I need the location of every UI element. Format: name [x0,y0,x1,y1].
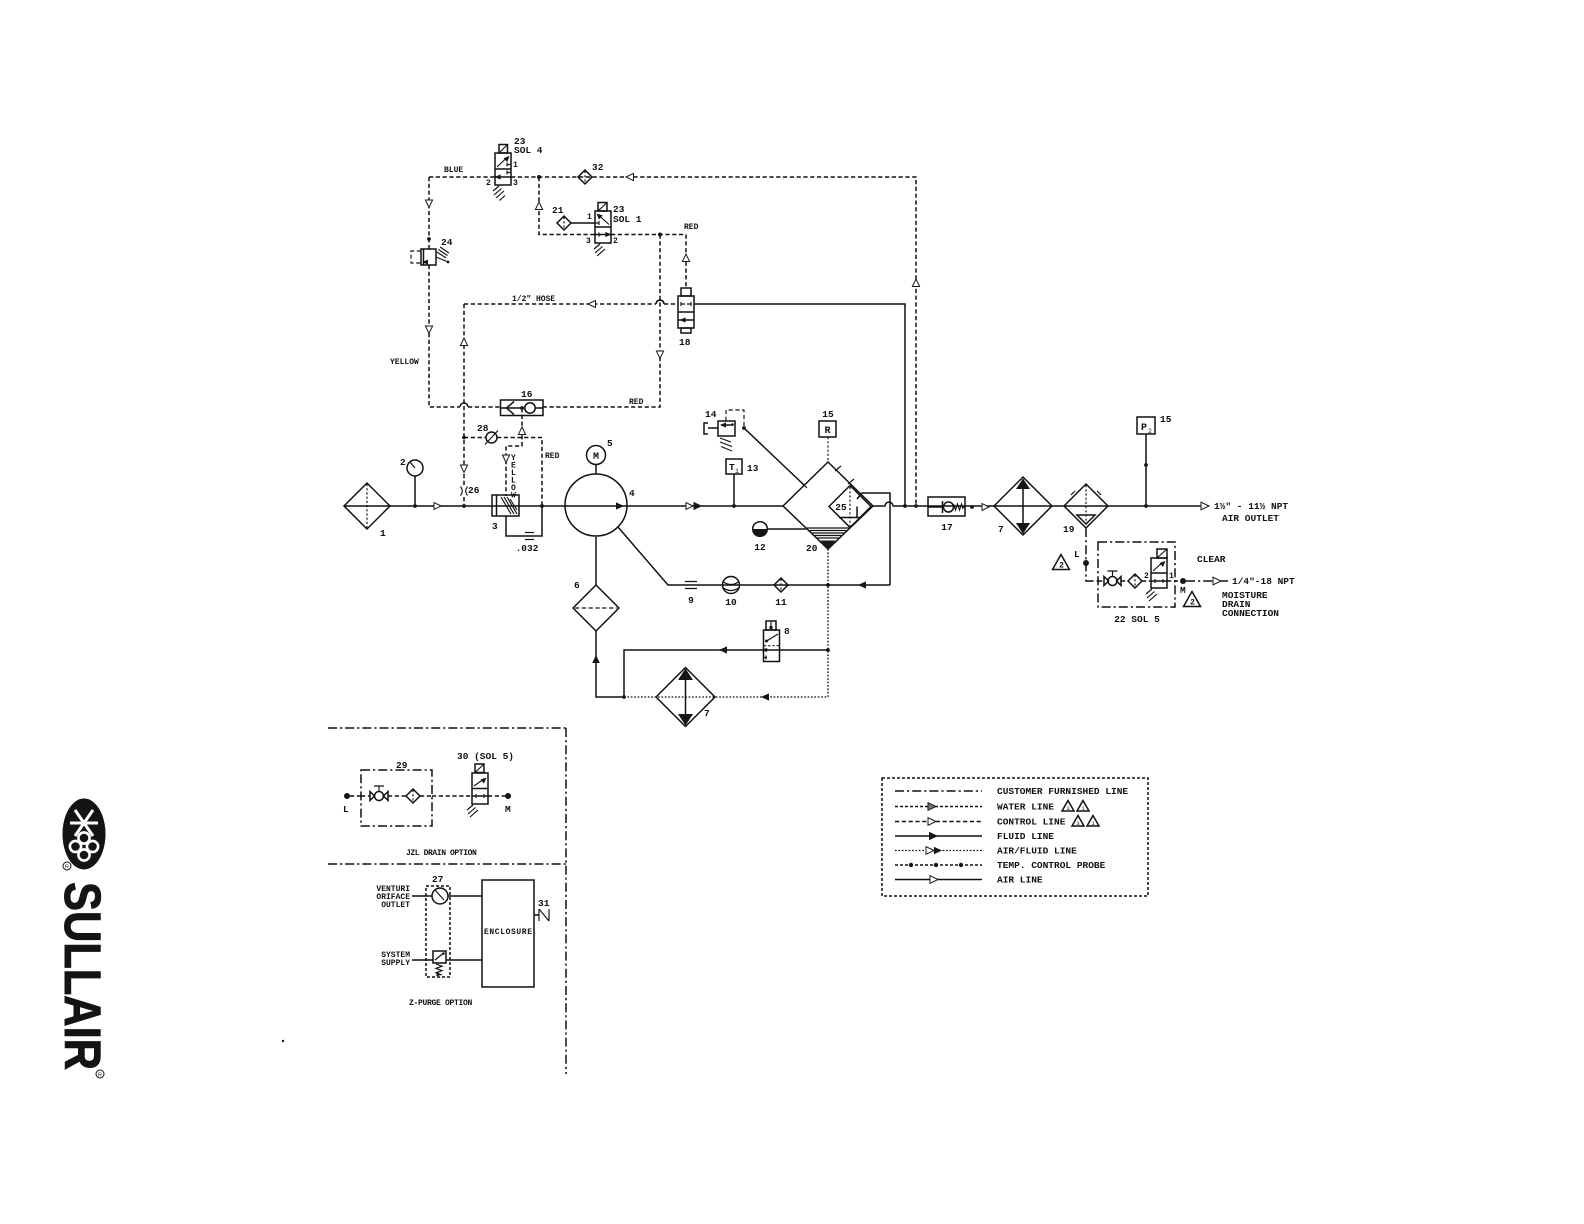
svg-text:3: 3 [1076,820,1079,827]
filter 1 [344,483,390,539]
svg-text:1: 1 [513,161,518,170]
svg-text:2: 2 [1190,599,1195,608]
node M [488,795,508,797]
node double arrow air/fluid after compressor [686,503,693,510]
row 4 fluid line [895,835,982,837]
svg-text:L: L [1074,549,1080,560]
svg-text:2: 2 [1059,562,1064,571]
svg-text:13: 13 [747,463,759,474]
svg-text:AIR OUTLET: AIR OUTLET [1222,513,1279,524]
hose break 26 [461,487,468,496]
svg-text:7: 7 [704,708,710,719]
row 7 air line [895,879,982,881]
filter diamond [406,789,420,803]
gauge 12 sight glass [753,522,806,553]
svg-text:8: 8 [784,626,790,637]
wire from separator 19 to L [1086,528,1098,581]
svg-text:L: L [343,804,349,815]
svg-text:7: 7 [998,524,1004,535]
wire main air line left segment [344,505,783,507]
svg-text:32: 32 [592,162,604,173]
svg-text:5: 5 [607,438,613,449]
scavenge pickup line [857,493,890,585]
svg-text:30 (SOL 5): 30 (SOL 5) [457,751,514,762]
svg-text:15: 15 [822,409,834,420]
wire RED pilot from SOL1 [543,223,699,407]
check valve 28 [462,423,560,506]
svg-text:2: 2 [613,237,618,246]
svg-text:2: 2 [486,179,491,188]
row 5 air/fluid line [895,850,982,852]
regulator [412,959,433,961]
M port [1167,580,1183,582]
wire to moisture drain connection [1186,580,1213,582]
filter diamond [1128,574,1142,588]
filter 11 [774,578,788,608]
dash-dot box 22 SOL 5 [1098,542,1175,607]
svg-text:SOL 1: SOL 1 [613,214,642,225]
svg-text:W: W [511,492,516,501]
svg-text:22 SOL 5: 22 SOL 5 [1114,614,1160,625]
svg-text:11: 11 [775,597,787,608]
gauge R 15 [819,409,836,462]
svg-text:12: 12 [754,542,766,553]
wire YELLOW line [390,177,500,407]
svg-text:28: 28 [477,423,489,434]
svg-text:2: 2 [1144,572,1149,581]
solenoid valve 22 [1157,549,1167,558]
row 2 water line [895,806,982,808]
svg-text:R: R [98,1073,102,1079]
svg-text:SULLAIR: SULLAIR [54,882,111,1070]
svg-text:2: 2 [400,457,406,468]
svg-text:1: 1 [1169,572,1174,581]
wire cooler return line [622,693,828,700]
svg-text:YELLOW: YELLOW [390,358,419,367]
heat exchanger 7 bottom [656,668,715,727]
wire separator drain dotted down [827,549,829,697]
svg-text:SOL 4: SOL 4 [514,145,543,156]
check valve 16 [501,389,544,501]
svg-text:P: P [1141,423,1147,434]
svg-text:27: 27 [432,874,444,885]
svg-text:CONTROL LINE: CONTROL LINE [997,817,1066,828]
svg-text:RED: RED [545,452,560,461]
svg-text:4: 4 [629,488,635,499]
svg-text:CLEAR: CLEAR [1197,554,1226,565]
orifice 32 [578,162,604,184]
svg-text:AIR/FLUID LINE: AIR/FLUID LINE [997,846,1077,857]
svg-text:BLUE: BLUE [444,166,463,175]
svg-text:3: 3 [513,179,518,188]
svg-text:3: 3 [586,237,591,246]
svg-text:OUTLET: OUTLET [381,901,410,910]
check valve 17 [928,497,974,533]
svg-text:17: 17 [941,522,953,533]
svg-text:10: 10 [725,597,737,608]
ball valve [1104,577,1121,586]
solenoid valve 8 [764,621,791,662]
sight glass 10 [723,577,740,609]
wire BLUE line [429,166,920,506]
pressure regulator 14 [704,409,804,485]
svg-text:.032: .032 [516,543,539,554]
warning triangle 2 [1184,592,1201,607]
compressor 4 with motor 5 [565,438,635,536]
wire SOL4 to SOL1 pilot line [535,177,595,235]
wire RED down to 16 line [543,235,660,408]
svg-text:FLUID LINE: FLUID LINE [997,831,1054,842]
svg-text:14: 14 [705,409,717,420]
svg-text:1/4"-18 NPT: 1/4"-18 NPT [1232,576,1295,587]
wire 1/2 hose line [460,295,678,506]
svg-text:1/2" HOSE: 1/2" HOSE [512,295,555,304]
svg-text:R: R [65,865,69,871]
valve 18 [678,288,694,348]
node L [344,793,350,799]
wire 16 pilot down [506,408,522,496]
row 1 customer furnished [895,790,982,792]
svg-text:1: 1 [380,528,386,539]
node arrow air line into compressor [434,503,441,510]
svg-text:16: 16 [521,389,533,400]
wire .032 orifice loop under valve 3 [506,506,542,536]
orifice 21 [552,205,595,230]
valve 24 [411,237,453,265]
gauge 27 [412,895,432,897]
svg-text:ENCLOSURE: ENCLOSURE [484,928,533,937]
node arrow at air outlet [1201,502,1209,510]
svg-text:M: M [1180,585,1186,596]
svg-text:1: 1 [587,213,592,222]
svg-text:25: 25 [835,502,847,513]
wire to solenoid [432,795,472,797]
svg-text:1½" - 11½ NPT: 1½" - 11½ NPT [1214,501,1288,512]
svg-text:20: 20 [806,543,818,554]
stray mark [282,1040,284,1042]
wire scavenge line from compressor [618,527,890,589]
svg-text:21: 21 [552,205,564,216]
svg-text:9: 9 [688,595,694,606]
filter element 25 [829,486,871,528]
svg-text:WATER LINE: WATER LINE [997,802,1054,813]
temp probe 13 [726,459,759,508]
node arrow after check valve 17 [982,504,989,511]
separator tank 20 big diamond [783,462,890,697]
wire main air line right segment with jump over scavenge riser [873,502,1201,506]
svg-text:AIR LINE: AIR LINE [997,875,1043,886]
heat exchanger 7 right [994,477,1052,535]
row 3 control line [895,821,982,823]
ticks on edges [801,466,854,488]
row 6 temp control probe [895,864,982,866]
enclosure box [482,880,534,987]
svg-text:CUSTOMER FURNISHED LINE: CUSTOMER FURNISHED LINE [997,786,1128,797]
svg-text:M: M [505,804,511,815]
MAIN AIR LINE [344,501,1288,524]
motor 5 [587,446,606,465]
svg-text:M: M [593,452,599,463]
svg-text:18: 18 [679,337,691,348]
svg-text:15: 15 [1160,414,1172,425]
solenoid valve 23 SOL 1 [586,203,642,257]
svg-text:24: 24 [441,237,453,248]
gauge 2 [400,457,423,508]
valve 3 regulator with hatch [462,495,544,554]
svg-text:31: 31 [538,898,550,909]
wire option border [328,728,566,1074]
svg-text:Z-PURGE OPTION: Z-PURGE OPTION [409,999,473,1008]
filter 6 [573,537,624,697]
svg-text:RED: RED [684,223,699,232]
wire 18 discharge to main line [694,304,905,506]
svg-text:CONNECTION: CONNECTION [1222,608,1279,619]
svg-text:19: 19 [1063,524,1075,535]
svg-text:TEMP. CONTROL PROBE: TEMP. CONTROL PROBE [997,860,1106,871]
orifice 9 [685,582,697,607]
svg-text:26: 26 [468,485,480,496]
wire valve 8 line [624,646,828,697]
moisture separator 19 [1063,484,1108,535]
solenoid valve 23 SOL 4 [486,136,543,201]
svg-text:1: 1 [735,468,739,475]
svg-text:6: 6 [574,580,580,591]
oil level hatch [807,528,849,538]
svg-text:R: R [824,426,830,437]
warning triangle 2 [1053,555,1070,570]
svg-text:SUPPLY: SUPPLY [381,959,410,968]
gauge P2 15 [1137,414,1172,508]
node junction dots on main line [903,504,907,508]
svg-text:3: 3 [492,521,498,532]
wire control to separator [744,428,804,485]
svg-text:JZL DRAIN OPTION: JZL DRAIN OPTION [406,849,477,858]
wire through box [1098,580,1151,582]
ball valve [370,792,388,801]
svg-text:RED: RED [629,398,644,407]
svg-text:2: 2 [1148,428,1152,435]
svg-text:3: 3 [1066,805,1069,812]
